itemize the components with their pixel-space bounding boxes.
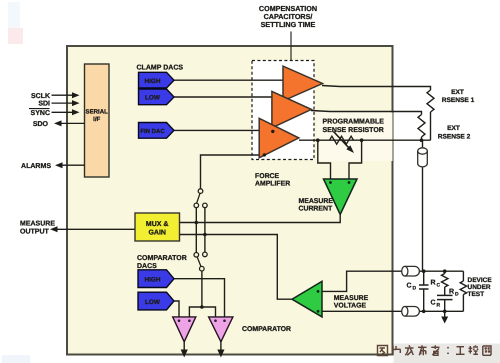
DAC comparator LOW (138, 292, 174, 310)
wire RC branch (444, 271, 446, 273)
svg-text:SCLK: SCLK (31, 93, 50, 100)
wire RD branch top (462, 271, 464, 281)
wire rsense junction to connector (422, 140, 424, 148)
DAC clamp HIGH (139, 72, 175, 88)
connector J1 vertical (418, 148, 428, 167)
svg-text:CURRENT: CURRENT (299, 206, 333, 213)
node mux top line (195, 221, 199, 225)
svg-text:SDI: SDI (38, 101, 50, 108)
switch S2 selector bottom (194, 252, 207, 271)
connector J3 bottom (402, 307, 420, 317)
wire pointer from compensation label to force amplifier box (290, 32, 292, 61)
wire left switch chain upper (195, 208, 197, 253)
svg-text:MUX &: MUX & (146, 221, 169, 228)
svg-text:PROGRAMMABLE: PROGRAMMABLE (323, 119, 385, 126)
capacitor CD plates (419, 284, 429, 286)
wire measure output line (57, 228, 135, 230)
svg-text:I/F: I/F (93, 116, 100, 123)
capacitor CR plates (437, 294, 453, 296)
pin SDO (33, 120, 85, 128)
svg-text:GAIN: GAIN (148, 230, 166, 237)
svg-text:MEASURE: MEASURE (20, 221, 55, 228)
op-amp A2 force mid (272, 91, 312, 127)
watermark bar (394, 344, 500, 363)
wire RC to CR (444, 287, 446, 295)
node sense right (360, 138, 364, 142)
svg-text:CLAMP DACS: CLAMP DACS (137, 65, 184, 72)
serial interface block (85, 64, 110, 177)
wire DUT bottom rail (419, 310, 464, 312)
node DUT bottom (422, 310, 426, 314)
svg-text:UNDER: UNDER (468, 284, 491, 291)
label COMPENSATION CAPACITORS / SETTLING TIME (259, 4, 317, 29)
resistor RD (460, 281, 466, 295)
node rsense bottom (420, 138, 424, 142)
connector J2 top (402, 266, 420, 276)
svg-text:ALARMS: ALARMS (21, 163, 51, 170)
sense resistor white label box (317, 113, 393, 162)
op-amp measure current (324, 179, 358, 215)
node sense left (316, 138, 320, 142)
svg-text:MEASURE: MEASURE (334, 295, 369, 302)
svg-text:TEST: TEST (468, 291, 485, 298)
svg-text:VOLTAGE: VOLTAGE (334, 302, 367, 309)
svg-text:R: R (431, 280, 436, 287)
svg-text:OUTPUT: OUTPUT (20, 228, 50, 235)
DAC comparator HIGH (138, 270, 174, 288)
wire comparator LOW dac (174, 301, 179, 317)
wire clamp HIGH dac to amplifier (174, 79, 283, 81)
svg-text:SETTLING TIME: SETTLING TIME (261, 20, 316, 29)
svg-text:EXT: EXT (447, 125, 460, 132)
wire mid amp output to ext rsense2 (311, 111, 422, 115)
wire switch common to comparator node (201, 271, 203, 307)
wire clamp LOW dac to amplifier (174, 96, 280, 98)
wire CD upper segment (423, 271, 425, 285)
svg-text:D: D (413, 286, 417, 292)
wire ground stub (444, 311, 446, 317)
wire FIN dac to amplifier (174, 129, 276, 131)
svg-text:HIGH: HIGH (145, 277, 161, 284)
resistor EXT RSENSE 2 (418, 115, 425, 138)
node mux bottom line (203, 233, 207, 237)
svg-text:RSENSE 1: RSENSE 1 (442, 97, 475, 104)
svg-text:C: C (431, 300, 436, 307)
wire comparator A output (183, 341, 185, 350)
wire node to comparator inputs (189, 307, 215, 317)
wire sense to measure current plus (349, 140, 362, 179)
svg-text:RSENSE 2: RSENSE 2 (438, 133, 471, 140)
DAC FIN (139, 123, 175, 139)
wire right switch chain upper (204, 208, 206, 252)
wire comparator HIGH dac (174, 279, 225, 317)
svg-text:DEVICE: DEVICE (468, 277, 493, 284)
svg-text:SDO: SDO (33, 121, 49, 128)
ground arrow (441, 317, 448, 324)
op-amp A3 force bottom (259, 118, 299, 158)
svg-text:FORCE: FORCE (255, 173, 280, 180)
svg-text:FIN DAC: FIN DAC (140, 128, 165, 135)
DAC clamp LOW (139, 89, 175, 105)
comparator B output arrow (217, 350, 224, 358)
pin ALARMS (21, 162, 84, 170)
svg-text:R: R (449, 289, 454, 296)
wire rsense2 bottom (421, 137, 423, 140)
svg-text:COMPARATOR: COMPARATOR (137, 255, 187, 262)
force amplifier dashed box (252, 61, 314, 160)
resistor EXT RSENSE 1 (427, 90, 434, 112)
wire measure current output to mux (180, 214, 341, 223)
wire measure voltage plus input (322, 271, 404, 291)
pin SCLK (31, 92, 80, 100)
wire force sense line (299, 139, 431, 141)
comparator CP2 (209, 317, 233, 342)
node comparator common (200, 305, 204, 309)
svg-text:SENSE RESISTOR: SENSE RESISTOR (323, 127, 384, 134)
svg-text:D: D (455, 292, 459, 298)
node DUT top (422, 269, 426, 273)
main device boundary box (67, 46, 393, 355)
comparator A output arrow (181, 350, 188, 358)
comparator CP1 (173, 317, 196, 342)
op-amp measure voltage (292, 281, 322, 317)
wire rsense1 bottom (430, 112, 432, 140)
wire RD branch bottom (462, 295, 464, 312)
wire measure voltage minus input (322, 310, 404, 312)
op-amp A1 force top (283, 66, 323, 101)
node on FIN line (271, 130, 274, 133)
svg-text:EXT: EXT (451, 89, 464, 96)
mux block MUX & GAIN (135, 213, 180, 241)
pin SYNC (active low) (29, 109, 80, 117)
pin SDI (38, 100, 79, 108)
svg-text:AMPLIFER: AMPLIFER (255, 180, 290, 187)
wire connector down to DUT (422, 168, 424, 272)
svg-text:LOW: LOW (145, 299, 161, 306)
node RC bottom (443, 310, 447, 314)
resistor RC (442, 274, 448, 288)
programmable resistor arrow (334, 132, 350, 149)
svg-text:R: R (437, 303, 441, 309)
svg-text:C: C (437, 283, 441, 289)
wire feedback into bottom amplifier (201, 155, 267, 189)
svg-text:DACS: DACS (137, 263, 157, 270)
wire force output to ext rsense1 (322, 86, 431, 91)
svg-text:LOW: LOW (145, 95, 161, 102)
svg-text:C: C (407, 283, 412, 290)
node on feedback line (263, 153, 266, 156)
node RC top (443, 269, 447, 273)
wire sense to measure current minus (318, 140, 331, 179)
svg-text:MEASURE: MEASURE (299, 198, 334, 205)
wire DUT top rail (419, 270, 464, 272)
svg-text:COMPARATOR: COMPARATOR (242, 326, 291, 333)
wire comparator B output (220, 341, 222, 350)
pin MEASURE OUTPUT (20, 221, 58, 236)
svg-text:SERIAL: SERIAL (86, 109, 109, 116)
resistor programmable sense (330, 136, 354, 144)
switch S1 selector top (194, 189, 207, 208)
wire CD lower segment (423, 289, 425, 311)
svg-text:HIGH: HIGH (145, 78, 161, 85)
svg-text:SYNC: SYNC (31, 110, 50, 117)
wire mux to measure voltage output (180, 235, 294, 300)
wire CR to bottom rail (444, 300, 446, 312)
